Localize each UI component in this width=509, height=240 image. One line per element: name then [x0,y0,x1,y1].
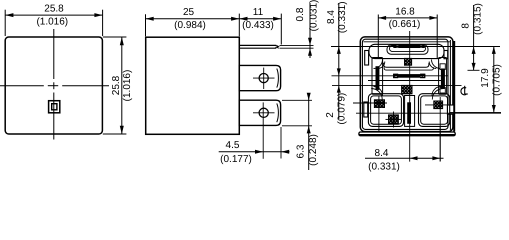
svg-text:2: 2 [325,112,336,118]
front view horizontal centerline [0,85,109,87]
terminal blade 1 (with hole) [239,65,280,90]
center slot [405,96,415,127]
horizontal centerline with CL symbol [332,86,468,95]
bottom flange [359,132,455,136]
dimension 11 (blade length) [239,7,281,45]
svg-text:(0.433): (0.433) [242,20,274,31]
middle blade bar [393,74,425,79]
svg-text:(0.705): (0.705) [492,64,503,96]
dimension 17.9 (top row to bottom row) [450,47,503,114]
top channel recess inner [390,46,426,52]
svg-text:17.9: 17.9 [480,68,491,88]
bottom-right edge window [447,105,453,114]
side view body outline [146,37,240,134]
hatched pad center-top [404,58,411,65]
svg-text:(1.016): (1.016) [36,17,68,28]
bottom view inner outline [362,39,448,129]
front view vertical centerline [53,29,55,140]
svg-text:11: 11 [253,7,264,18]
svg-text:25: 25 [183,7,195,18]
top-left slot [365,51,369,66]
svg-text:8.4: 8.4 [375,148,389,159]
svg-text:(0.661): (0.661) [389,19,421,30]
left pad centerlines [353,96,387,131]
svg-text:6.3: 6.3 [295,144,306,158]
dimension 2 (middle row to centerline) [325,86,347,125]
dimension 8.4 left (top row to middle row) [326,1,361,119]
bottom-left channel inner [371,96,402,124]
bottom-right channel inner [421,96,448,124]
top row line [331,46,500,48]
svg-text:(0.331): (0.331) [368,161,400,172]
svg-text:(0.079): (0.079) [337,93,348,125]
hatched pad lower-left [388,115,398,124]
svg-text:16.8: 16.8 [395,7,415,18]
hatched pad center-mid [402,85,413,94]
right side blade caps [440,64,445,93]
dimension 8 right (top row to side blade) [453,3,500,70]
top channel outer [369,44,444,58]
recess bracket upper [384,63,429,68]
top step line [364,41,451,43]
dimension 25 (side view width) [146,7,240,36]
right blade slot [439,58,447,95]
left blade slot [372,58,383,95]
bottom-left slot [364,102,368,117]
dimension 0.8 (blade thickness) [295,0,319,58]
top-right slot [444,51,448,59]
bottom view outer outline [360,37,453,132]
dimension 4.5 (hole center to blade tip) [219,127,290,165]
dimension 16.8 (top of bottom view) [378,7,437,59]
dimension 25.8 right (front view height) [103,37,133,134]
svg-text:8: 8 [461,23,472,29]
svg-text:25.8: 25.8 [111,75,122,95]
middle feature line [332,75,449,77]
top thin blade 0.8mm [239,45,313,48]
dimension 25.8 top (front view width) [5,4,102,36]
hatched pad left [374,100,384,108]
bottom-left channel outer [368,94,403,127]
svg-text:(1.016): (1.016) [122,70,133,102]
dimension 6.3 (blade width) [282,93,319,170]
svg-text:8.4: 8.4 [326,10,337,24]
molded recess line [368,80,445,82]
svg-text:(0.984): (0.984) [174,20,206,31]
top channel recess outer [387,45,428,54]
channel connector arcs [371,60,443,100]
mounting tab outer square [49,101,60,113]
mounting tab inner square [52,104,57,110]
svg-text:(0.177): (0.177) [220,154,252,165]
left side blade [376,66,380,90]
svg-text:(0.031): (0.031) [308,0,319,31]
bottom row line [356,112,501,114]
lower-left pad centerlines [386,112,402,128]
terminal blade 2 (with hole) [239,100,280,159]
bottom view inner right line [449,40,451,130]
svg-text:(0.315): (0.315) [472,3,483,35]
front view body outline [5,37,102,134]
bottom view right edge band [453,41,455,132]
right side blade [441,69,445,90]
svg-text:4.5: 4.5 [226,140,240,151]
svg-text:(0.331): (0.331) [337,1,348,33]
dimension 8.4 bottom (center blade to right blade) [365,126,444,172]
top coil blade bar [393,45,424,48]
center bottom blade [407,102,411,124]
svg-text:25.8: 25.8 [44,4,64,15]
right pad centerlines [425,97,452,162]
svg-text:(0.248): (0.248) [308,134,319,166]
bottom-right channel outer [419,94,450,127]
recess bracket lower [384,67,433,70]
vertical centerline [409,31,411,162]
svg-text:0.8: 0.8 [295,7,306,21]
hatched pad right [434,101,443,109]
